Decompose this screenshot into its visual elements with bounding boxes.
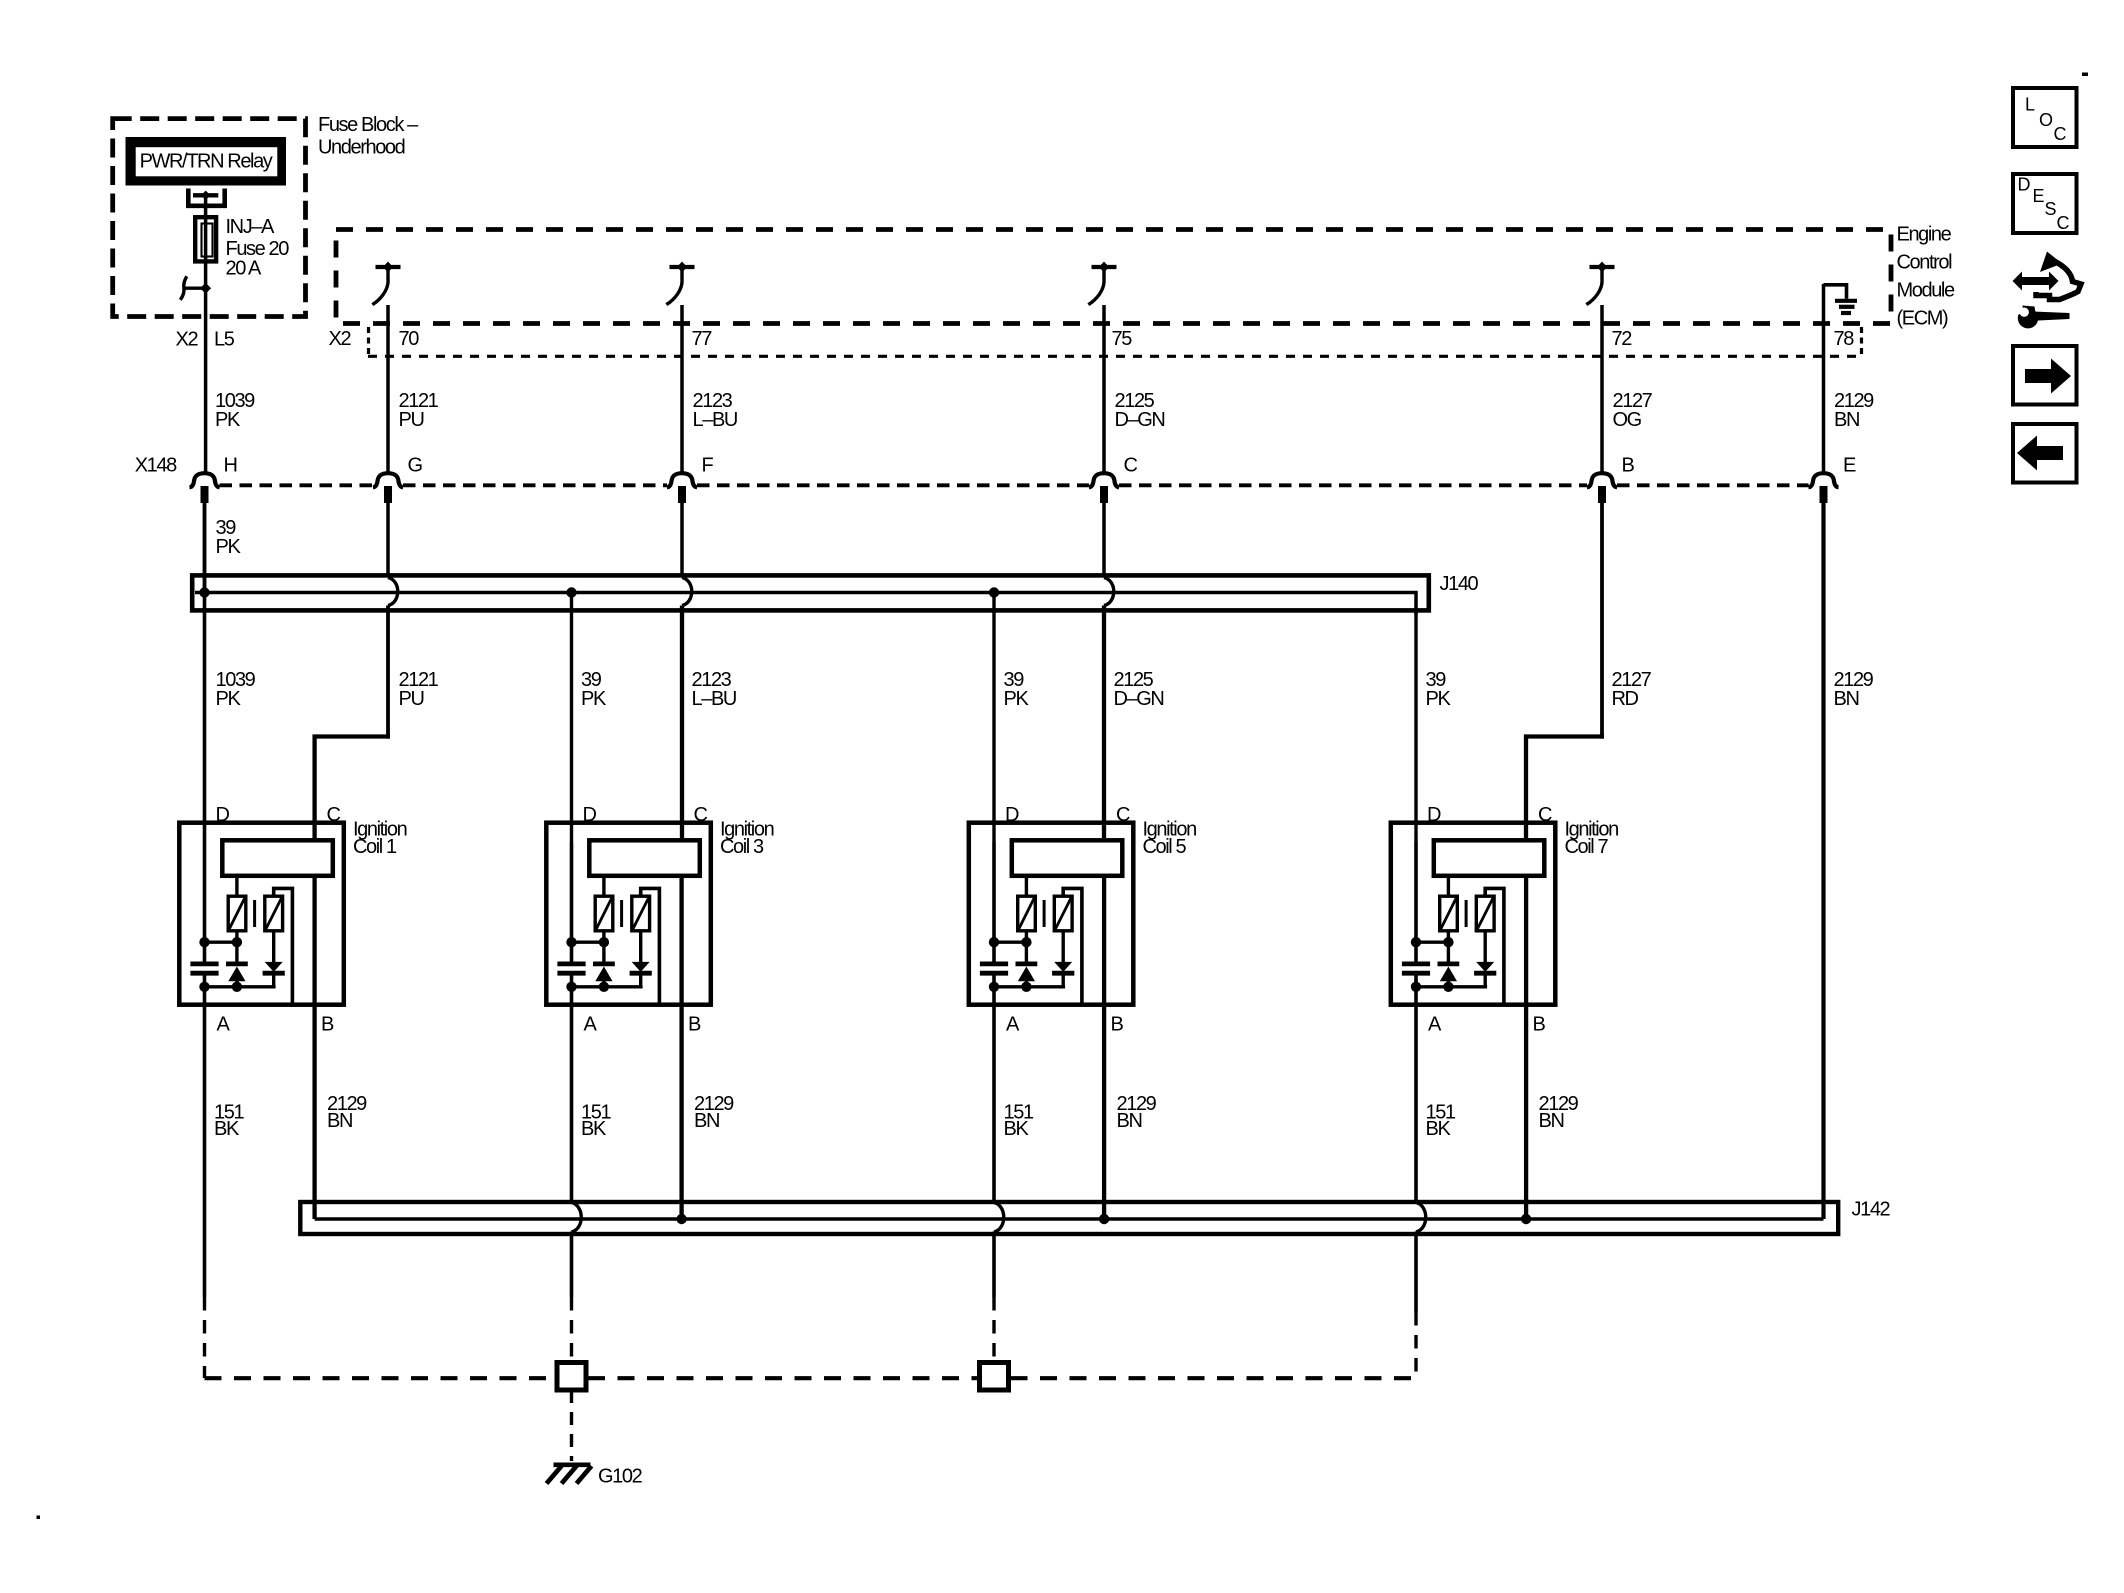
wire 2123 L-BU to coil3 C xyxy=(680,606,684,843)
X148 cavity F xyxy=(667,473,697,487)
connector separator right xyxy=(1860,327,1863,357)
wire 2127 OG pin 72 to X148 B xyxy=(1600,305,1604,472)
X148 cavity C xyxy=(1089,473,1119,487)
coil 3 primary winding xyxy=(595,896,613,931)
coil 7 case xyxy=(1391,823,1556,1005)
coil 5 core xyxy=(1043,900,1046,927)
svg-text:A: A xyxy=(1428,1014,1442,1036)
junction dot J140 tap coil5 xyxy=(989,587,999,597)
svg-text:F: F xyxy=(702,455,714,477)
junction dot J142 coil5 B xyxy=(1099,1214,1109,1224)
ECM driver pin 72 xyxy=(1586,262,1614,305)
ECM connector X2 dotted line xyxy=(368,355,1862,358)
coil 3 diode 1 xyxy=(593,962,615,967)
svg-text:L5: L5 xyxy=(214,329,235,351)
wire 2123 L-BU pin 77 to X148 F xyxy=(680,305,684,472)
wire hop C over J140 xyxy=(1104,578,1114,606)
ECM driver pin 77 xyxy=(666,262,694,305)
svg-text:PK: PK xyxy=(1004,688,1030,710)
coil 7 connector block xyxy=(1434,840,1545,876)
svg-text:PK: PK xyxy=(215,409,241,431)
coil 7 primary feed stub xyxy=(1447,877,1450,897)
svg-text:BN: BN xyxy=(327,1110,352,1132)
svg-text:B: B xyxy=(1111,1014,1124,1036)
wire B X148 down xyxy=(1600,503,1604,739)
svg-text:PK: PK xyxy=(1426,688,1452,710)
svg-text:C: C xyxy=(2057,213,2070,233)
wire hop coil5 A over J142 xyxy=(994,1203,1004,1233)
sidebar LOC box xyxy=(2013,88,2077,147)
coil 5 winding-diode wire xyxy=(1025,931,1028,962)
wire 151 BK coil1 A xyxy=(203,975,207,1297)
wire E X148 to J142 xyxy=(1821,503,1825,1219)
svg-text:A: A xyxy=(1006,1014,1020,1036)
X148 cavity H xyxy=(190,473,220,487)
svg-text:Coil 5: Coil 5 xyxy=(1143,836,1187,858)
X148 cavity G xyxy=(373,473,403,487)
svg-text:Coil 7: Coil 7 xyxy=(1565,836,1609,858)
coil 5 capacitor xyxy=(980,962,1008,967)
svg-text:X2: X2 xyxy=(329,328,352,350)
svg-text:BN: BN xyxy=(1539,1110,1564,1132)
svg-text:E: E xyxy=(2033,186,2045,206)
svg-text:BK: BK xyxy=(1426,1118,1452,1140)
svg-text:C: C xyxy=(327,804,341,826)
ground G102 xyxy=(547,1465,592,1484)
fuse block underhood dashed box xyxy=(113,119,306,317)
svg-text:X2: X2 xyxy=(176,329,199,351)
coil 1 case xyxy=(179,823,343,1005)
svg-text:PWR/TRN Relay: PWR/TRN Relay xyxy=(140,151,273,173)
svg-text:(ECM): (ECM) xyxy=(1897,308,1949,330)
svg-text:BN: BN xyxy=(694,1110,719,1132)
ECM driver pin 75 xyxy=(1088,262,1116,305)
wire 39 PK tap to coil3 D xyxy=(570,593,573,843)
svg-text:OG: OG xyxy=(1613,409,1642,431)
wire 151 BK coil3 A xyxy=(570,975,574,1202)
fuse INJ-A Fuse 20 20A xyxy=(195,217,216,261)
svg-text:L–BU: L–BU xyxy=(693,409,737,431)
wire 2121 PU pin 70 to X148 G xyxy=(386,305,390,472)
wire 151 BK coil5 A xyxy=(992,975,996,1202)
X148 cavity B xyxy=(1587,473,1617,487)
svg-text:BK: BK xyxy=(214,1118,240,1140)
svg-text:BK: BK xyxy=(1004,1118,1030,1140)
coil 5 secondary winding xyxy=(1054,896,1072,931)
wire 2127 RD jog to coil7 C xyxy=(1526,737,1604,843)
coil 1 connector block xyxy=(222,840,332,876)
svg-text:Fuse 20: Fuse 20 xyxy=(226,238,290,260)
relay contact switch xyxy=(185,287,209,290)
ignition coil 7 xyxy=(1391,823,1556,1005)
wire coil7 B to J142 xyxy=(1524,876,1528,1219)
wire 2129 BN pin 78 to X148 E xyxy=(1822,284,1826,472)
svg-text:J140: J140 xyxy=(1440,573,1479,595)
sidebar service icon double arrow xyxy=(2013,252,2082,329)
svg-text:Control: Control xyxy=(1897,252,1953,274)
svg-text:Coil 3: Coil 3 xyxy=(720,836,764,858)
svg-text:D: D xyxy=(1005,804,1019,826)
svg-text:J142: J142 xyxy=(1852,1199,1891,1221)
coil 7 primary winding xyxy=(1440,896,1458,931)
coil 7 diode 2 xyxy=(1483,931,1486,962)
wire 2121 PU jog to coil1 C xyxy=(386,606,390,739)
svg-text:C: C xyxy=(1116,804,1130,826)
svg-text:D: D xyxy=(216,804,230,826)
svg-text:PK: PK xyxy=(581,688,607,710)
sidebar next arrow box xyxy=(2013,346,2077,405)
coil 1 diode 2 xyxy=(272,931,275,962)
svg-text:D: D xyxy=(1427,804,1441,826)
wire 2125 D-GN pin 75 to X148 C xyxy=(1102,305,1106,472)
coil 5 connector block xyxy=(1012,840,1123,876)
svg-text:G102: G102 xyxy=(598,1466,643,1488)
coil 5 primary feed stub xyxy=(1025,877,1028,897)
ignition coil 3 xyxy=(546,823,711,1005)
coil 5 secondary return wire xyxy=(1063,888,1082,1005)
coil 5 primary junction wire xyxy=(993,941,1027,944)
svg-text:B: B xyxy=(1622,455,1635,477)
wire 2125 D-GN to coil5 C xyxy=(1102,606,1106,843)
svg-text:E: E xyxy=(1843,455,1856,477)
ECM dashed box xyxy=(336,230,1891,324)
svg-text:BN: BN xyxy=(1834,688,1859,710)
svg-text:77: 77 xyxy=(692,328,713,350)
wire hop F over J140 xyxy=(682,578,692,606)
svg-text:A: A xyxy=(217,1014,231,1036)
ignition coil 1 xyxy=(179,823,343,1005)
svg-text:C: C xyxy=(1538,804,1552,826)
wire hop G over J140 xyxy=(388,578,398,606)
wire coil7 D internal xyxy=(1414,842,1418,962)
sidebar DESC box xyxy=(2013,174,2077,233)
coil 3 primary junction wire xyxy=(570,941,604,944)
svg-text:H: H xyxy=(224,455,237,477)
coil 1 winding-diode wire xyxy=(235,931,238,962)
ignition coil 5 xyxy=(969,823,1134,1005)
svg-text:72: 72 xyxy=(1612,328,1633,350)
coil 1 secondary winding xyxy=(265,896,283,931)
coil 1 core xyxy=(253,900,256,927)
splice square S2 xyxy=(980,1363,1009,1391)
dashed ground bus xyxy=(205,1376,556,1380)
wire hop coil3 A over J142 xyxy=(572,1203,582,1233)
svg-text:B: B xyxy=(321,1014,334,1036)
wire hop coil7 A over J142 xyxy=(1416,1203,1426,1233)
coil 3 primary feed stub xyxy=(602,877,605,897)
wire relay terminal through fuse xyxy=(204,197,208,288)
svg-text:O: O xyxy=(2039,110,2053,130)
ECM driver pin 70 xyxy=(372,262,400,305)
svg-text:20 A: 20 A xyxy=(226,258,262,280)
coil 3 winding-diode wire xyxy=(602,931,605,962)
svg-text:70: 70 xyxy=(399,328,420,350)
coil 7 secondary winding xyxy=(1476,896,1494,931)
svg-text:C: C xyxy=(2054,124,2067,144)
coil 5 diode 2 xyxy=(1061,931,1064,962)
dashed wire splice to G102 xyxy=(570,1390,573,1461)
relay output terminal bracket xyxy=(188,189,224,206)
svg-text:D–GN: D–GN xyxy=(1115,409,1165,431)
coil 1 primary junction wire xyxy=(203,941,237,944)
svg-text:Coil 1: Coil 1 xyxy=(353,836,397,858)
svg-text:PU: PU xyxy=(399,688,424,710)
svg-text:L–BU: L–BU xyxy=(692,688,736,710)
wire C X148 to J140 crossing xyxy=(1102,503,1106,578)
X148 cavity E xyxy=(1809,473,1839,487)
coil 3 case xyxy=(546,823,711,1005)
wire coil1 D internal xyxy=(203,503,207,962)
svg-text:D: D xyxy=(583,804,597,826)
svg-text:BN: BN xyxy=(1117,1110,1142,1132)
svg-text:D–GN: D–GN xyxy=(1114,688,1164,710)
coil 1 primary winding xyxy=(228,896,246,931)
wire 151 BK coil7 A xyxy=(1414,975,1418,1202)
coil 3 connector block xyxy=(589,840,700,876)
wire coil3 B to J142 xyxy=(679,876,683,1219)
wire coil5 B to J142 xyxy=(1102,876,1106,1219)
coil 1 capacitor xyxy=(190,962,218,967)
svg-text:PU: PU xyxy=(399,409,424,431)
wire coil1 B to J142 xyxy=(312,876,316,1219)
wire 39 PK tap to coil5 D xyxy=(992,593,995,843)
connector X148 dashed line xyxy=(220,483,374,487)
junction dot J142 coil3 B xyxy=(676,1214,686,1224)
coil 1 secondary return wire xyxy=(274,888,293,1005)
coil 5 diode 1 xyxy=(1016,962,1038,967)
coil 3 capacitor xyxy=(557,962,585,967)
wire 1039 PK fuse output to X148 H xyxy=(204,288,208,472)
sidebar service icon wrench xyxy=(2018,308,2038,328)
wire G X148 to J140 crossing xyxy=(386,503,390,578)
svg-text:L: L xyxy=(2025,95,2035,115)
coil 3 bottom junction wire xyxy=(570,985,643,988)
coil 7 primary junction wire xyxy=(1415,941,1449,944)
coil 7 capacitor xyxy=(1402,962,1430,967)
wire 39 PK X148 H to J140 xyxy=(203,503,207,593)
svg-text:Module: Module xyxy=(1897,280,1955,302)
svg-text:Fuse Block –: Fuse Block – xyxy=(318,114,419,136)
connector separator left xyxy=(367,327,370,356)
coil 7 core xyxy=(1465,900,1468,927)
svg-text:C: C xyxy=(694,804,708,826)
svg-text:D: D xyxy=(2018,175,2031,195)
junction bus J142 xyxy=(300,1202,1838,1234)
coil 3 diode 2 xyxy=(639,931,642,962)
svg-text:G: G xyxy=(408,455,423,477)
dashed ground wire coil1 A xyxy=(203,1297,206,1378)
coil 3 core xyxy=(620,900,623,927)
page tick mark xyxy=(2082,73,2088,77)
ECM internal ground at pin 78 xyxy=(1824,285,1858,313)
sidebar service icon curved arrow body xyxy=(2040,252,2062,273)
wire coil5 D internal xyxy=(992,842,996,962)
splice square S1 xyxy=(557,1363,586,1391)
coil 1 bottom junction wire xyxy=(203,985,276,988)
coil 3 secondary winding xyxy=(632,896,650,931)
wire coil3 D internal xyxy=(570,842,574,962)
junction dot J140 H xyxy=(199,587,209,597)
dashed ground wire coil5 A xyxy=(992,1297,995,1361)
sidebar back arrow box xyxy=(2013,424,2077,483)
svg-text:A: A xyxy=(584,1014,598,1036)
coil 3 secondary return wire xyxy=(641,888,660,1005)
dashed ground wire coil7 A xyxy=(1414,1312,1417,1378)
coil 5 primary winding xyxy=(1018,896,1036,931)
coil 5 case xyxy=(969,823,1134,1005)
junction dot J140 tap coil3 xyxy=(566,587,576,597)
coil 7 winding-diode wire xyxy=(1447,931,1450,962)
coil 7 bottom junction wire xyxy=(1415,985,1488,988)
dashed ground wire coil3 A xyxy=(570,1297,573,1361)
coil 7 secondary return wire xyxy=(1485,888,1504,1005)
svg-text:X148: X148 xyxy=(135,455,177,477)
coil 1 diode 1 xyxy=(226,962,248,967)
svg-text:PK: PK xyxy=(216,536,242,558)
svg-text:Engine: Engine xyxy=(1897,224,1952,246)
svg-text:B: B xyxy=(1533,1014,1546,1036)
svg-text:B: B xyxy=(688,1014,701,1036)
junction bus J140 xyxy=(192,575,1429,610)
svg-text:Underhood: Underhood xyxy=(318,137,405,159)
junction dot J142 coil7 B xyxy=(1521,1214,1531,1224)
svg-text:BK: BK xyxy=(581,1118,607,1140)
svg-text:S: S xyxy=(2045,199,2057,219)
svg-text:INJ–A: INJ–A xyxy=(226,216,276,238)
page dot mark xyxy=(37,1516,41,1520)
svg-text:PK: PK xyxy=(216,688,242,710)
coil 7 diode 1 xyxy=(1438,962,1460,967)
relay PWR/TRN Relay xyxy=(130,141,283,182)
svg-text:C: C xyxy=(1124,455,1138,477)
svg-text:BN: BN xyxy=(1834,409,1859,431)
svg-text:RD: RD xyxy=(1612,688,1639,710)
coil 5 bottom junction wire xyxy=(993,985,1066,988)
wire 39 PK tap to coil7 D xyxy=(1414,610,1417,842)
svg-text:75: 75 xyxy=(1112,328,1133,350)
svg-text:78: 78 xyxy=(1834,328,1855,350)
coil 1 primary feed stub xyxy=(235,877,238,897)
wire F X148 to J140 crossing xyxy=(680,503,684,578)
